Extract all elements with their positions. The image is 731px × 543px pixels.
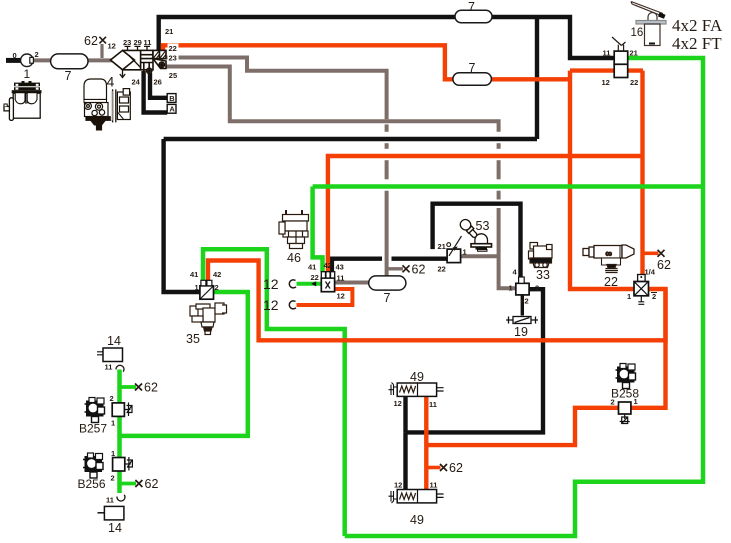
wire green hose 12 to X-valve mid port 22 — [297, 282, 322, 286]
svg-text:11: 11 — [430, 481, 438, 490]
svg-text:43: 43 — [336, 263, 344, 272]
label port 25 — [168, 70, 179, 79]
wire gray vertical x=498.6 segment5 down to valve near 19 — [499, 208, 516, 288]
svg-text:22: 22 — [169, 44, 177, 53]
svg-text:12: 12 — [394, 399, 402, 408]
svg-text:62: 62 — [412, 263, 426, 277]
svg-text:25: 25 — [169, 71, 177, 80]
dryer diamond — [111, 50, 167, 73]
svg-text:21: 21 — [630, 49, 638, 58]
X-valve2 bottom stub — [638, 296, 644, 305]
wire orange chambers 49 vertical — [424, 396, 428, 489]
valve box B256 — [113, 458, 125, 472]
wire orange X-valve mid port 12 to hose 12 — [297, 289, 353, 305]
wire orange vertical x=642.5 valve16 port 22 to X-valve2 top — [640, 71, 644, 275]
box A — [167, 104, 176, 113]
wire black compressor inlet stub — [6, 58, 22, 63]
svg-text:1: 1 — [111, 419, 115, 428]
valve 35 diagonal — [201, 287, 213, 299]
svg-text:33: 33 — [536, 268, 550, 282]
dryer port 26 circle — [147, 68, 152, 73]
svg-text:4x2 FA: 4x2 FA — [672, 16, 723, 35]
svg-text:1: 1 — [634, 397, 638, 406]
svg-text:62: 62 — [84, 34, 98, 48]
brake chamber 49 bottom — [389, 490, 444, 504]
dryer governor hatched squares ports 22 23 — [153, 50, 160, 58]
parking valve 12 actuator pins — [612, 37, 626, 51]
hose connector 12 lower — [289, 301, 296, 309]
wire black valve port 2 to brake chambers 49 — [406, 289, 544, 432]
svg-text:22: 22 — [311, 273, 319, 282]
svg-text:B257: B257 — [79, 422, 107, 436]
wire gray vertical x=386.6 segment5 to tank 7 mid — [385, 191, 389, 277]
sensor icon B258 — [616, 364, 636, 389]
svg-text:41: 41 — [190, 270, 198, 279]
svg-text:49: 49 — [410, 370, 424, 384]
wire gray tank 7a to dryer inlet — [86, 58, 112, 62]
hose connector 12 upper — [289, 280, 296, 288]
wire gray vertical x=498.6 segment4 — [497, 191, 501, 200]
air tank 7a — [51, 54, 88, 69]
valve box B257 — [112, 403, 124, 417]
box B — [167, 94, 176, 103]
svg-text:1: 1 — [463, 248, 467, 257]
wire orange parking vertical x=570 to X-valve2 port 1 — [570, 71, 634, 289]
svg-text:12: 12 — [394, 481, 402, 490]
svg-text:∞: ∞ — [606, 249, 612, 259]
svg-text:22: 22 — [604, 275, 618, 289]
svg-text:53: 53 — [476, 219, 490, 233]
valve 21-22 switch symbol — [449, 236, 462, 256]
svg-text:12: 12 — [263, 297, 279, 313]
wire black dryer port 24 to box A — [144, 71, 168, 113]
solenoid 14 bottom stub — [98, 512, 105, 514]
wire green sensors chain vertical — [117, 370, 122, 494]
svg-text:62: 62 — [145, 477, 159, 491]
wire orange dryer port 22 to tank 7c — [163, 45, 454, 79]
svg-text:23: 23 — [169, 54, 177, 63]
X-valve2 top port — [638, 275, 646, 282]
wire orange valve 35 port 42 to mid horizontal to X-valve2 port 2 — [208, 261, 666, 341]
svg-text:26: 26 — [154, 78, 162, 87]
svg-text:7: 7 — [65, 69, 72, 83]
svg-text:23: 23 — [123, 38, 131, 47]
connector right B256 — [125, 457, 133, 471]
svg-text:12: 12 — [602, 78, 610, 87]
svg-text:B256: B256 — [78, 477, 106, 491]
parking valve 12 block — [614, 51, 628, 77]
svg-text:4x2 FT: 4x2 FT — [672, 34, 722, 53]
X-valve2 X symbol — [635, 282, 648, 295]
wire black U-loop over sensor 53 — [433, 204, 521, 277]
valve 35 pictorial — [190, 303, 227, 335]
svg-text:11: 11 — [105, 363, 113, 372]
wire green drop to X-valve mid port 41 — [313, 187, 323, 272]
wire gray vertical x=498.6 segment3 — [497, 160, 501, 179]
dryer check valve port 25 — [153, 59, 166, 69]
svg-text:22: 22 — [438, 265, 446, 274]
valve body — [516, 283, 529, 295]
svg-text:19: 19 — [514, 325, 528, 339]
svg-text:1: 1 — [111, 449, 115, 458]
X-valve mid body — [321, 278, 334, 292]
X62 above B257 — [135, 384, 142, 391]
solenoid 14 top — [103, 348, 123, 362]
svg-text:B: B — [169, 94, 175, 103]
wire orange X-valve2 port 2 to B258 — [631, 289, 666, 408]
compressor 1 circle — [21, 54, 34, 67]
svg-text:12: 12 — [108, 42, 116, 51]
wire gray compressor to tank 7a — [31, 58, 52, 62]
X-valve mid X symbol — [326, 282, 331, 289]
svg-text:1: 1 — [195, 283, 199, 292]
wire green stub X62 below B256 — [120, 482, 137, 486]
svg-text:42: 42 — [324, 261, 332, 270]
label port 22 with white backing — [168, 44, 179, 53]
valve 16 pictorial knob — [658, 13, 666, 19]
wire orange valve 16 bottom ports line — [570, 68, 643, 72]
valve 35 top ports — [201, 280, 206, 286]
svg-text:21: 21 — [165, 27, 173, 36]
X-valve2 body — [634, 282, 649, 296]
svg-text:11: 11 — [106, 496, 114, 505]
wire black left vertical to valve 35 port 1 — [164, 139, 200, 292]
svg-text:14: 14 — [108, 521, 122, 535]
svg-text:14: 14 — [107, 334, 121, 348]
wire orange stub to X62 near 49 — [426, 466, 440, 470]
wire black dryer port 21 to top main and valve 16 — [159, 17, 615, 58]
svg-text:12: 12 — [263, 276, 279, 292]
wire green valve 35 port 41 long loop — [203, 249, 345, 536]
wire green stub X62 above B257 — [120, 385, 137, 389]
wire gray dryer port 25 line — [166, 67, 499, 132]
dryer valve block — [141, 50, 153, 69]
valve port 4 stub — [519, 277, 525, 283]
svg-text:4: 4 — [107, 74, 115, 90]
svg-text:7: 7 — [468, 0, 475, 14]
wire black dryer port 26 to box B — [150, 73, 167, 98]
valve box B258 — [619, 402, 631, 414]
sensor icon B257 — [85, 398, 105, 423]
wire black vertical to 49 top port 12 — [403, 396, 407, 432]
port 11 arc top — [116, 365, 124, 371]
air tank 7 mid — [369, 276, 406, 290]
svg-text:2: 2 — [111, 474, 115, 483]
svg-text:62: 62 — [657, 258, 671, 272]
svg-text:1/4: 1/4 — [645, 268, 656, 277]
svg-text:12: 12 — [337, 292, 345, 301]
wire gray dryer port 12 stub up to X62 — [100, 44, 103, 58]
dryer top pins 23 29 11 — [125, 46, 151, 50]
wire gray vertical x=498.6 segment2 — [497, 143, 501, 149]
X62 below B256 — [135, 480, 142, 487]
wire orange X-valve mid port 42 riser — [328, 156, 643, 272]
wire gray dryer port 23 line to mid-chassis — [166, 58, 387, 120]
svg-text:4: 4 — [513, 268, 518, 277]
svg-text:2: 2 — [535, 284, 539, 293]
X-valve mid top ports — [321, 272, 334, 278]
svg-text:2: 2 — [35, 50, 39, 59]
wire gray valve 21-22 to vertical x=498.6 — [461, 254, 499, 258]
svg-text:41: 41 — [308, 263, 316, 272]
valve 16 pictorial lever — [631, 2, 666, 46]
wire gray vertical x=386.6 segment3 — [385, 143, 389, 149]
wire orange tank 7c to parking vertical — [490, 77, 570, 81]
wire orange B258 port 2 to chamber 49 circuit — [426, 408, 618, 445]
svg-text:2: 2 — [525, 297, 529, 306]
svg-text:11: 11 — [144, 38, 152, 47]
svg-text:7: 7 — [469, 61, 476, 75]
wire black X-valve port 43 to valve 21-22 segment a — [332, 259, 382, 272]
valve 35 body — [200, 286, 214, 299]
svg-text:1: 1 — [24, 67, 31, 81]
svg-text:11: 11 — [429, 400, 437, 409]
svg-text:11: 11 — [603, 49, 611, 58]
dryer exhaust arrow — [120, 70, 125, 78]
compressor engine pictorial — [4, 81, 42, 120]
connector right B257 — [124, 403, 132, 417]
svg-text:49: 49 — [410, 513, 424, 527]
wire green valve 35 port 2 to sensors B257 B256 — [120, 292, 248, 436]
X-valve mid check arrow on green — [311, 281, 316, 286]
air tank 7c orange circuit — [453, 73, 492, 86]
air tank 7b top — [455, 10, 492, 23]
wire gray vertical x=386.6 segment4 — [385, 160, 389, 179]
wire gray X-valve port 11 to tank 7 mid — [335, 281, 370, 285]
svg-text:2: 2 — [611, 398, 615, 407]
svg-text:62: 62 — [144, 381, 158, 395]
svg-text:62: 62 — [449, 461, 463, 475]
svg-text:46: 46 — [287, 251, 301, 265]
label port 23 right with white backing — [168, 53, 179, 62]
svg-text:2: 2 — [652, 292, 656, 301]
svg-text:24: 24 — [132, 78, 141, 87]
svg-text:35: 35 — [186, 332, 200, 346]
svg-text:21: 21 — [438, 242, 446, 251]
wire green valve 16 port 21 main right loop — [345, 58, 703, 536]
svg-text:7: 7 — [384, 291, 391, 305]
wire gray vertical x=386.6 segment2 — [385, 124, 389, 131]
wire black vertical to 49 bottom port 12 — [403, 432, 407, 489]
wire black vertical x=537 top main to second main — [535, 17, 539, 139]
solenoid 14 bottom — [104, 506, 124, 520]
svg-text:42: 42 — [213, 270, 221, 279]
wire black valve bottom port to device 19 — [521, 295, 524, 316]
svg-text:1: 1 — [627, 292, 631, 301]
brake chamber 49 top — [389, 383, 444, 397]
wire green second main y=186.5 — [313, 184, 703, 189]
svg-text:2: 2 — [110, 394, 114, 403]
svg-text:29: 29 — [134, 38, 142, 47]
port 11 arc bottom — [117, 495, 125, 501]
spring 49 bottom — [400, 493, 416, 500]
svg-text:1: 1 — [509, 284, 513, 293]
svg-text:A: A — [169, 105, 175, 114]
wire black X-valve port 43 to valve 21-22 segment b — [392, 257, 448, 261]
sensor icon B256 — [83, 453, 103, 478]
wire black second main y=139 — [164, 137, 537, 141]
compressor 1 outlet notch — [30, 57, 34, 63]
svg-text:0: 0 — [13, 51, 17, 60]
connector below B258 — [620, 414, 630, 424]
spring 49 top — [400, 386, 416, 393]
svg-text:11: 11 — [337, 274, 345, 283]
air dryer pictorial — [84, 79, 130, 130]
X62 mark at dryer — [99, 37, 106, 44]
svg-text:16: 16 — [631, 27, 644, 39]
solenoid 14 top stub — [97, 352, 103, 355]
svg-text:2: 2 — [215, 283, 219, 292]
wire orange stub to X62 right of device 22 — [643, 252, 659, 256]
X62 near 49 — [440, 464, 447, 471]
valve 21-22 body — [447, 249, 461, 263]
wire gray stub to X62 near tank 7 mid — [387, 267, 403, 270]
svg-text:22: 22 — [630, 78, 638, 87]
